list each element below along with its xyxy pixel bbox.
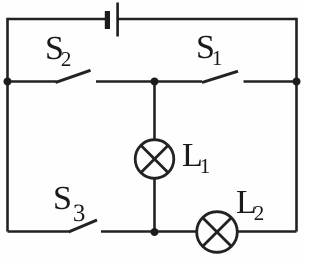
wire L2 right edge to bottom-right corner	[238, 230, 297, 233]
label S3	[53, 180, 85, 228]
wire L1 bottom to bottom junction	[153, 179, 156, 232]
switch S3 blade	[69, 220, 98, 232]
label S1	[196, 29, 222, 71]
lamp L1	[135, 140, 174, 179]
switch S1 blade	[202, 71, 238, 82]
node bottom junction dot	[151, 228, 159, 236]
label L1	[182, 137, 210, 179]
node right junction dot	[293, 78, 301, 86]
label S2	[45, 30, 71, 72]
wire S2 fixed contact to middle node	[96, 80, 155, 83]
wire middle node to S1 pivot	[155, 80, 203, 83]
node left junction dot	[4, 78, 12, 86]
node middle junction dot	[151, 78, 159, 86]
battery B1	[105, 3, 119, 37]
wire middle row: left node to S2 pivot	[8, 80, 58, 83]
wire right vertical	[295, 18, 298, 232]
label L2	[236, 184, 264, 226]
lamp L2	[197, 212, 238, 253]
wire S1 fixed contact to right node	[244, 80, 297, 83]
wire bottom-left to S3 pivot	[8, 230, 69, 233]
wire top-right segment	[119, 18, 297, 21]
wire left vertical	[6, 18, 9, 232]
wire S3 fixed contact to bottom junction	[101, 230, 197, 233]
switch S2 blade	[56, 70, 91, 82]
wire top-left segment	[8, 18, 106, 21]
wire middle node down to L1 top	[153, 82, 156, 141]
